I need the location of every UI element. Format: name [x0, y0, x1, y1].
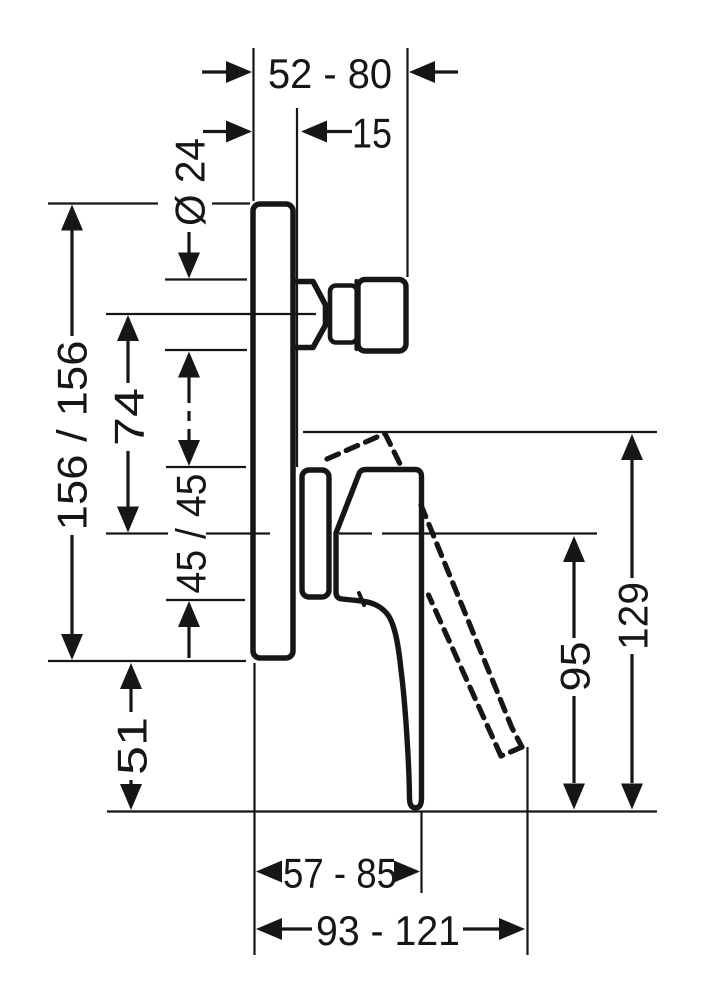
spout centerline — [106, 313, 316, 315]
dimension 95 — [572, 561, 575, 783]
valve sleeve — [302, 470, 329, 597]
svg-text:Ø 24: Ø 24 — [167, 138, 214, 226]
ref line spout bottom — [165, 349, 247, 351]
spout block left face line — [354, 281, 358, 349]
svg-text:57 - 85: 57 - 85 — [283, 850, 397, 897]
dashed lever back edge — [429, 595, 502, 756]
ref line spout top — [165, 278, 247, 280]
svg-text:156 / 156: 156 / 156 — [49, 341, 96, 531]
ref line valve bottom — [166, 599, 245, 601]
dimension 57-85 — [256, 861, 420, 883]
dimension 156/156 — [70, 229, 73, 636]
ref line plate bottom — [48, 660, 246, 662]
extension line dashed tip bottom — [526, 747, 528, 955]
dimension 15 — [203, 130, 352, 133]
svg-text:95: 95 — [552, 642, 599, 692]
svg-text:51: 51 — [109, 717, 156, 775]
dimension 93-121 — [281, 927, 500, 930]
dimension 51 — [129, 688, 132, 785]
svg-text:93 - 121: 93 - 121 — [316, 907, 460, 954]
svg-text:45 / 45: 45 / 45 — [168, 474, 215, 594]
extension line plate left top — [252, 48, 254, 201]
dashed lever tip cap — [501, 747, 522, 756]
ref line plate top — [48, 202, 250, 204]
ref line lever bottom — [107, 810, 657, 812]
spout connection block — [358, 280, 406, 352]
valve centerline — [106, 532, 597, 534]
dashed lever front edge — [421, 505, 522, 747]
extension line lever front bottom — [420, 812, 422, 893]
extension line bottom left — [253, 663, 255, 955]
svg-text:52 - 80: 52 - 80 — [268, 50, 392, 97]
spout cylinder — [330, 286, 357, 343]
dimension 45/45 — [168, 474, 215, 594]
ref line valve top — [166, 466, 246, 468]
handle body with lever down — [336, 470, 422, 808]
dimension 52-80 — [202, 70, 458, 73]
dimension 129 — [630, 459, 633, 783]
extension line block right — [406, 48, 408, 277]
handle joint tick — [359, 593, 364, 605]
thin lines — [48, 48, 657, 955]
dashed handle top outline — [327, 434, 403, 471]
spout sleeve cone — [295, 282, 326, 348]
svg-text:129: 129 — [610, 582, 657, 650]
svg-text:15: 15 — [352, 110, 392, 157]
svg-text:74: 74 — [106, 388, 153, 446]
ref line dashed-handle top — [303, 431, 657, 433]
dimension diameter 24 — [167, 138, 214, 226]
dimension 74 — [126, 340, 129, 508]
extension line plate front (15) — [296, 108, 298, 467]
wall plate — [253, 204, 293, 658]
